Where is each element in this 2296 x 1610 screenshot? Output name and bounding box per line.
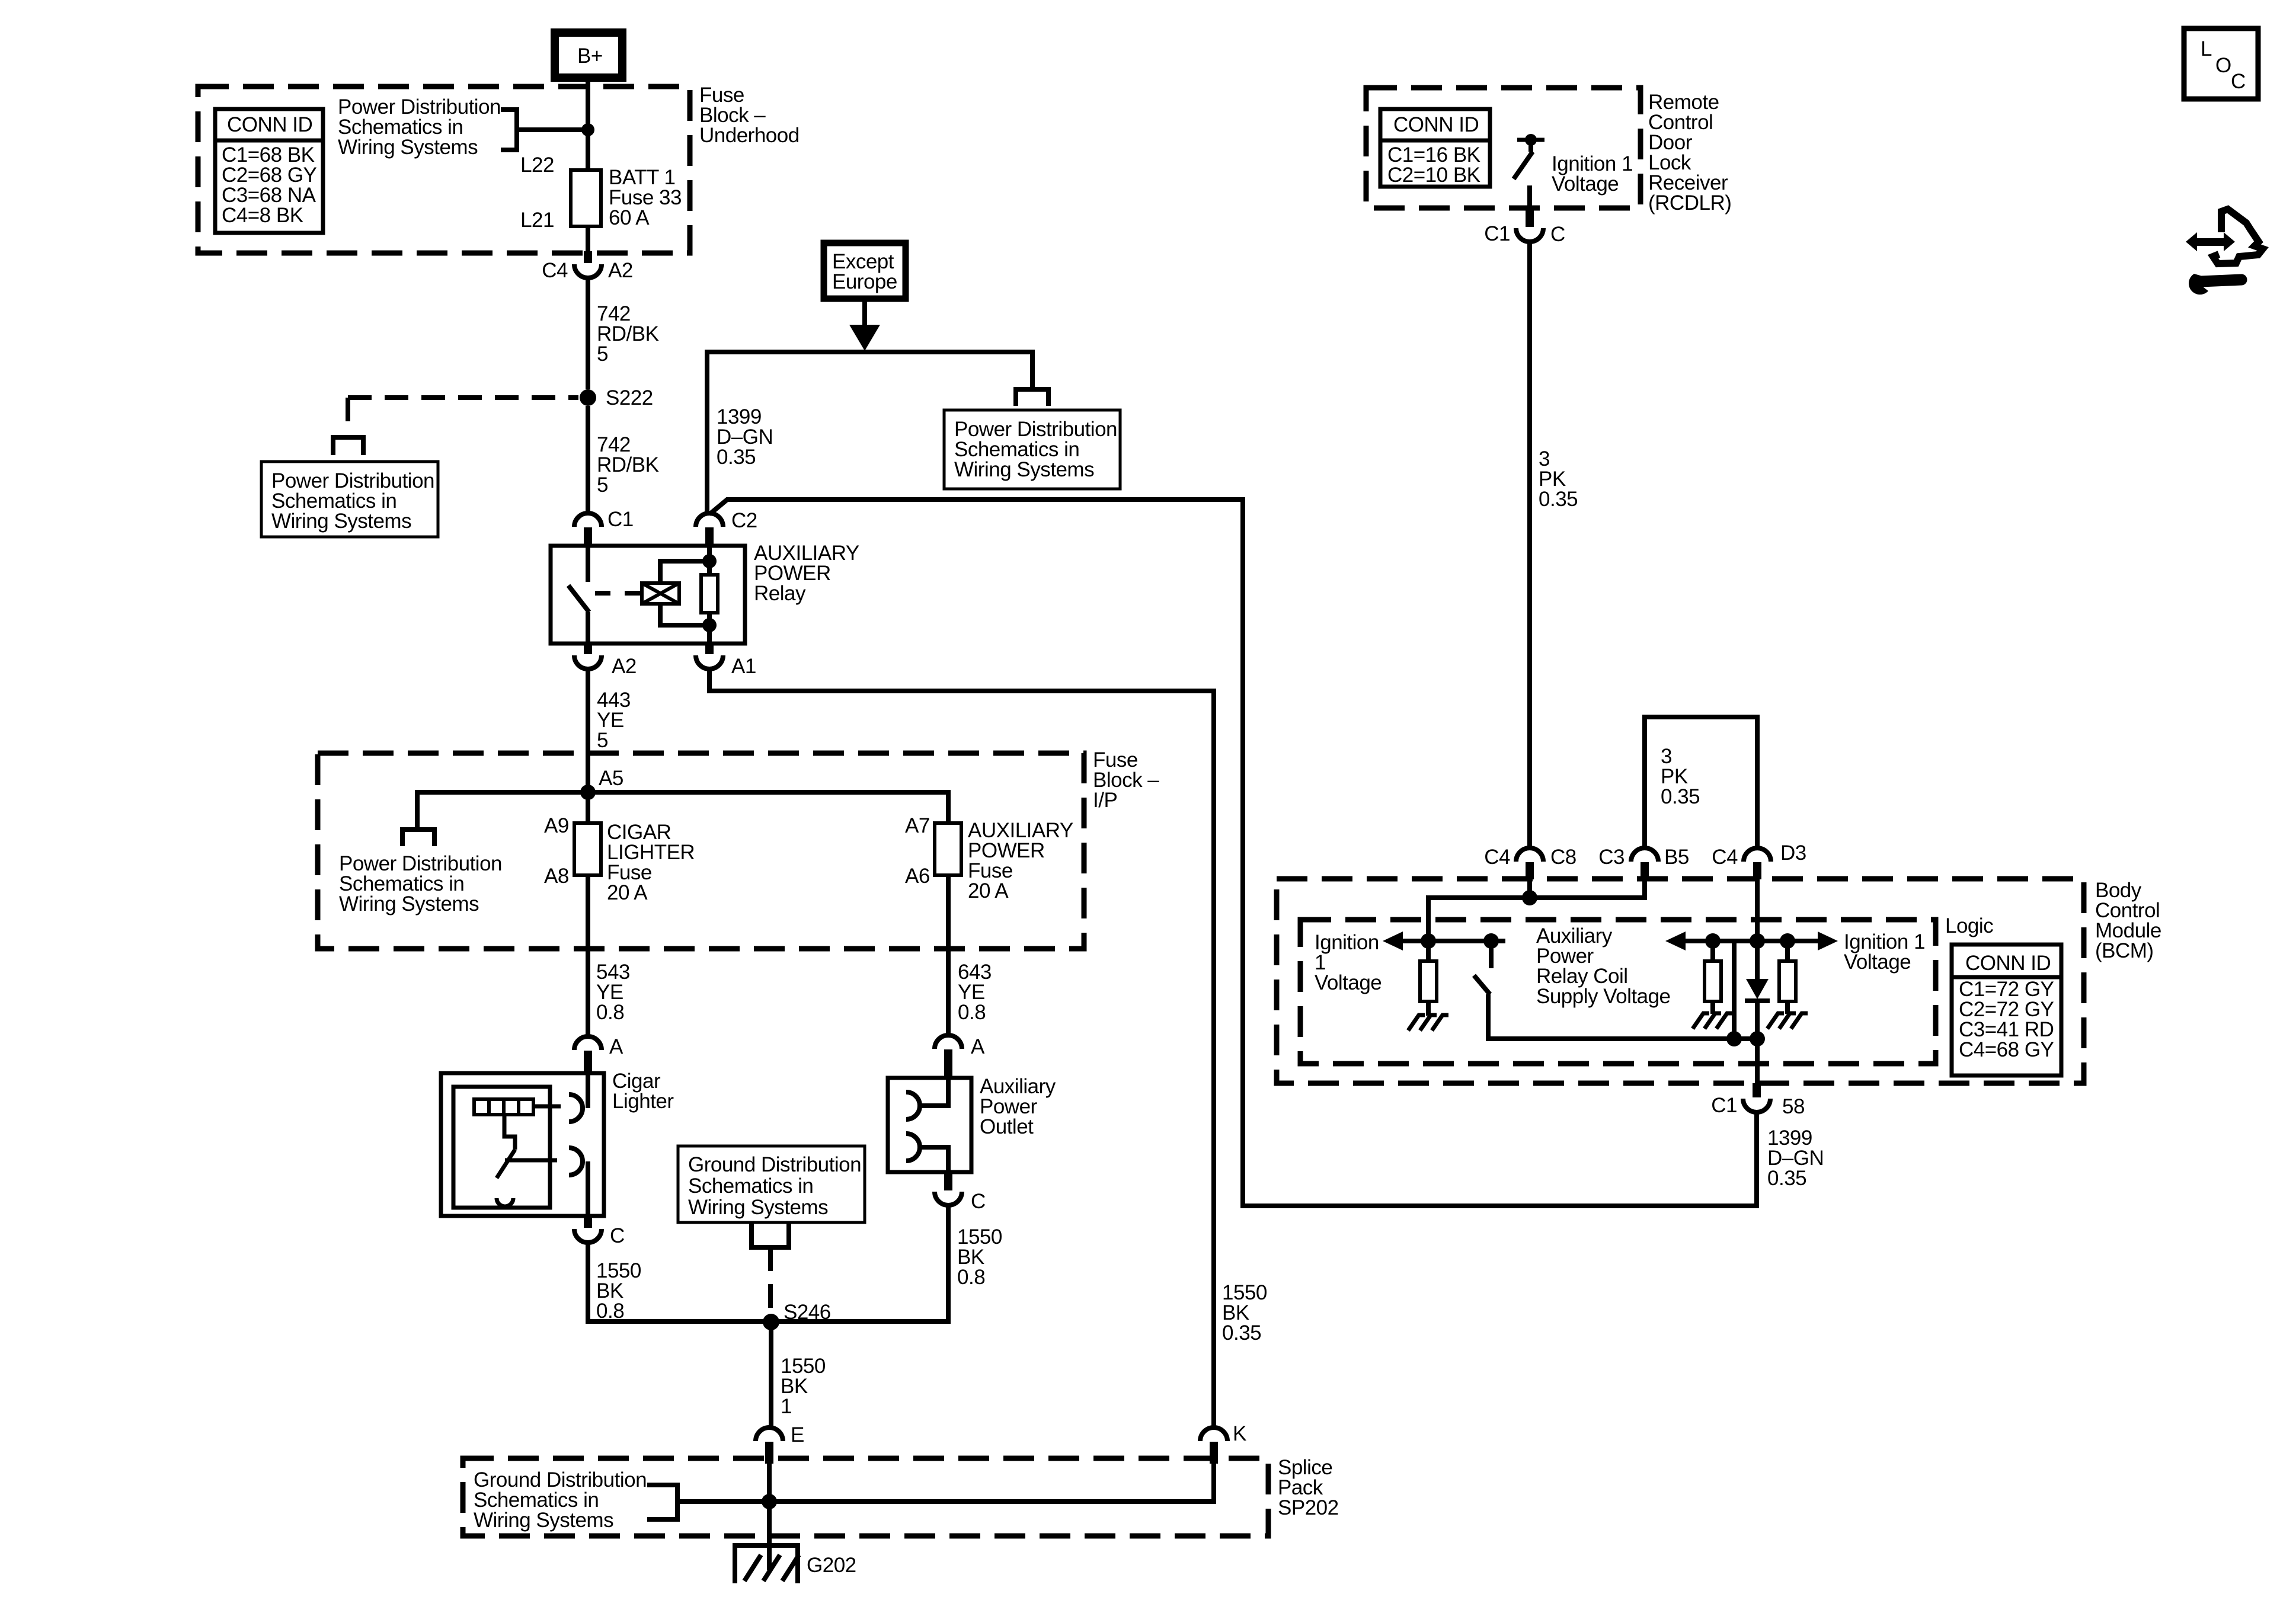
- BCM logic dashed box: [1300, 920, 1936, 1064]
- BCM dashed box: [1277, 879, 2084, 1083]
- label wire 742 RD/BK 5: [597, 302, 659, 366]
- resistor (right pull-down): [1767, 941, 1808, 1029]
- service info icon (animal head, arrow, wrench): [2213, 209, 2263, 264]
- bracket below Ground Distribution box: [752, 1224, 789, 1247]
- connector K (splice pack): [1200, 1422, 1246, 1464]
- wire B+ to fuse BATT1: [586, 78, 590, 172]
- wire loop B5 to D3: [1645, 717, 1757, 848]
- svg-text:Relay: Relay: [754, 582, 806, 605]
- label: Power Distribution Schematics in Wiring Systems (underhood): [338, 95, 501, 159]
- fuse block underhood dashed box: [198, 87, 690, 253]
- bracket above Power Distribution ref (I/P): [402, 830, 434, 846]
- connector C3 / B5 (BCM): [1598, 846, 1689, 879]
- svg-text:(RCDLR): (RCDLR): [1648, 191, 1731, 215]
- svg-text:5: 5: [597, 473, 608, 497]
- svg-text:Voltage: Voltage: [1315, 971, 1382, 994]
- dashed wire to S246: [768, 1247, 773, 1313]
- svg-text:58: 58: [1782, 1095, 1805, 1118]
- svg-text:C4: C4: [1484, 846, 1510, 869]
- B+ power symbol: [555, 33, 622, 78]
- ignition 1 voltage arrow (left): [1315, 931, 1505, 994]
- label 1550 BK 0.8 (right): [957, 1225, 1002, 1289]
- cigar lighter component: [441, 1070, 674, 1216]
- label 1399 D-GN 0.35 (coil feed): [717, 405, 773, 469]
- svg-text:1: 1: [781, 1395, 792, 1418]
- connector E (splice pack): [756, 1423, 804, 1464]
- svg-text:C1: C1: [1711, 1094, 1737, 1117]
- svg-text:Logic: Logic: [1945, 914, 1993, 937]
- svg-text:CONN ID: CONN ID: [1393, 113, 1479, 136]
- resistor (middle pull-down): [1693, 941, 1733, 1029]
- svg-text:S246: S246: [784, 1301, 831, 1324]
- label 1550 BK 1: [781, 1355, 826, 1418]
- ignition 1 voltage arrows (right): [1665, 930, 1925, 974]
- svg-text:0.35: 0.35: [1767, 1167, 1806, 1190]
- wire C2 coil to BCM 58: [709, 500, 1757, 1206]
- svg-text:A2: A2: [608, 259, 633, 282]
- fuse CIGAR LIGHTER Fuse 20 A: [544, 792, 695, 904]
- connector A (aux outlet): [935, 1035, 985, 1078]
- svg-text:Schematics in: Schematics in: [688, 1174, 813, 1198]
- svg-text:C4: C4: [1712, 846, 1738, 869]
- LOC reference box: [2184, 28, 2258, 99]
- CONN ID table (fuse block underhood): [215, 109, 323, 233]
- wire aux fuse down: [946, 875, 951, 1036]
- svg-text:A9: A9: [544, 814, 569, 837]
- arrow from Except Europe: [862, 299, 867, 326]
- svg-text:Ground Distribution: Ground Distribution: [688, 1153, 861, 1176]
- splice pack SP202 dashed box: [463, 1458, 1268, 1536]
- lower contact: [569, 1148, 583, 1175]
- svg-text:G202: G202: [807, 1554, 856, 1577]
- connector C1 (relay): [574, 508, 634, 546]
- wire A2 down to fuse block I/P: [586, 669, 590, 792]
- svg-text:0.35: 0.35: [717, 446, 756, 469]
- connector C (aux outlet): [935, 1172, 986, 1213]
- svg-text:5: 5: [597, 729, 608, 752]
- svg-text:C1: C1: [1484, 222, 1510, 245]
- svg-text:0.8: 0.8: [958, 1001, 986, 1024]
- wire RCDLR C to BCM C8: [1527, 242, 1532, 848]
- label: Auxiliary Power Relay Coil Supply Voltage: [1536, 924, 1671, 1008]
- relay coil supply vertical + resistor: [701, 546, 718, 644]
- label 543 YE 0.8: [596, 961, 630, 1024]
- upper contact: [569, 1094, 583, 1122]
- box: Power Distribution Schematics in Wiring Systems (center): [944, 410, 1120, 489]
- RCDLR dashed box: [1366, 88, 1641, 208]
- svg-text:Wiring Systems: Wiring Systems: [688, 1196, 828, 1219]
- wire to ground G202: [767, 1502, 772, 1570]
- relay switch: [568, 546, 589, 644]
- wire bracket to B+ feed: [517, 127, 588, 132]
- svg-text:0.35: 0.35: [1661, 785, 1700, 808]
- svg-text:SP202: SP202: [1278, 1496, 1339, 1519]
- svg-text:A6: A6: [905, 865, 930, 888]
- svg-text:Lighter: Lighter: [612, 1090, 674, 1113]
- bracket above Power Distribution box: [333, 437, 363, 455]
- svg-text:C: C: [971, 1190, 986, 1213]
- connector C4 / A2: [542, 251, 633, 282]
- svg-text:0.35: 0.35: [1539, 488, 1578, 511]
- svg-text:C4: C4: [542, 259, 568, 282]
- label 1550 BK 0.8 (left): [596, 1259, 641, 1323]
- svg-text:0.8: 0.8: [596, 1001, 624, 1024]
- heater element: [474, 1099, 533, 1115]
- connector C4 / D3 (BCM): [1712, 841, 1806, 879]
- connector C2 (relay coil): [696, 509, 757, 546]
- svg-text:E: E: [791, 1423, 804, 1446]
- svg-text:C1: C1: [607, 508, 634, 531]
- label: Remote Control Door Lock Receiver (RCDLR): [1648, 91, 1731, 215]
- wire into upper contact: [586, 1073, 590, 1108]
- connector C (cigar lighter): [574, 1216, 625, 1247]
- bracket to Ground Distribution label (splice pack): [647, 1485, 677, 1519]
- svg-text:A1: A1: [731, 655, 756, 678]
- connector C1 / 58 (BCM out): [1711, 1083, 1805, 1118]
- fuse block I/P dashed box: [318, 753, 1084, 949]
- svg-text:Wiring Systems: Wiring Systems: [338, 136, 478, 159]
- auxiliary power outlet component: [888, 1075, 1056, 1172]
- label wire 443 YE 5: [597, 689, 631, 752]
- splice pack internal bus: [767, 1464, 772, 1502]
- svg-text:A5: A5: [599, 767, 623, 790]
- svg-text:A: A: [971, 1035, 985, 1058]
- fuse AUXILIARY POWER Fuse 20 A: [905, 814, 1073, 902]
- dashed wire from S222 to Power Distribution reference: [348, 395, 578, 400]
- svg-text:Wiring Systems: Wiring Systems: [954, 458, 1094, 481]
- svg-text:20 A: 20 A: [607, 881, 648, 904]
- wire 742 RD/BK segment 1: [586, 278, 590, 389]
- label: Body Control Module (BCM): [2095, 879, 2161, 962]
- thermal cutout: [504, 1115, 515, 1150]
- svg-text:L: L: [2201, 37, 2212, 60]
- svg-text:I/P: I/P: [1093, 789, 1117, 812]
- label 1550 BK 0.35 (K feed): [1222, 1281, 1267, 1345]
- svg-text:S222: S222: [606, 386, 653, 409]
- label: Ground Distribution Schematics in Wiring Systems (splice pack): [474, 1468, 647, 1532]
- svg-text:Wiring Systems: Wiring Systems: [271, 510, 411, 533]
- svg-text:O: O: [2215, 54, 2231, 77]
- wire A5 bus: [417, 792, 948, 828]
- svg-text:60 A: 60 A: [609, 206, 650, 229]
- svg-text:Voltage: Voltage: [1844, 950, 1911, 974]
- svg-text:L22: L22: [520, 153, 554, 177]
- splice S246: [763, 1314, 779, 1330]
- svg-text:A7: A7: [905, 814, 930, 837]
- label wire 742 RD/BK 5 (second): [597, 433, 659, 497]
- AUXILIARY POWER Relay box: [551, 546, 745, 644]
- svg-text:A: A: [609, 1035, 623, 1058]
- fuse BATT 1 Fuse 33 60 A: [520, 153, 682, 232]
- diode on D3 line: [1745, 879, 1770, 1083]
- svg-text:C4=68 GY: C4=68 GY: [1959, 1038, 2054, 1061]
- connector C1 / C (RCDLR): [1484, 209, 1565, 246]
- svg-text:C3: C3: [1598, 846, 1625, 869]
- box: Power Distribution Schematics in Wiring Systems (left): [261, 462, 438, 537]
- box: Ground Distribution Schematics in Wiring Systems (center): [678, 1146, 865, 1222]
- svg-text:A2: A2: [612, 655, 637, 678]
- svg-text:B5: B5: [1664, 846, 1689, 869]
- wire cigar fuse down: [586, 875, 590, 1037]
- svg-text:20 A: 20 A: [968, 879, 1009, 902]
- wire cigar C to S246: [586, 1243, 590, 1324]
- label 3 PK 0.35: [1539, 447, 1578, 511]
- svg-text:D3: D3: [1780, 841, 1806, 865]
- svg-text:L21: L21: [520, 209, 554, 232]
- label: Power Distribution Schematics in Wiring Systems (I/P): [339, 852, 502, 916]
- svg-text:Supply Voltage: Supply Voltage: [1536, 985, 1671, 1008]
- svg-text:A8: A8: [544, 865, 569, 888]
- label 643 YE 0.8: [958, 961, 992, 1024]
- bracket to Power Distribution label (underhood): [501, 110, 517, 150]
- svg-text:C8: C8: [1550, 846, 1576, 869]
- svg-text:Wiring Systems: Wiring Systems: [339, 892, 479, 916]
- svg-text:0.8: 0.8: [957, 1266, 985, 1289]
- resistor (left pull-down): [1408, 941, 1448, 1030]
- wire to C: [586, 1161, 590, 1216]
- connector C4 / C8 (BCM): [1484, 846, 1576, 879]
- wire fuse to connector C4/A2: [586, 226, 590, 251]
- svg-text:Voltage: Voltage: [1552, 172, 1619, 196]
- BCM internal: C8 node bus: [1527, 879, 1532, 898]
- BCM switch: [1474, 933, 1765, 1046]
- svg-text:CONN ID: CONN ID: [1965, 952, 2051, 975]
- label: Fuse Block - Underhood: [699, 84, 800, 147]
- svg-text:Underhood: Underhood: [699, 124, 800, 147]
- svg-text:Outlet: Outlet: [980, 1115, 1034, 1138]
- connector A (cigar lighter): [574, 1035, 623, 1073]
- svg-text:K: K: [1233, 1422, 1246, 1445]
- splice S222: [580, 389, 596, 406]
- wire A1 to splice pack K: [709, 669, 1214, 1427]
- connector A1 (relay out): [696, 644, 756, 678]
- node: bracket tap on B+ feed: [581, 123, 594, 136]
- svg-text:(BCM): (BCM): [2095, 939, 2154, 962]
- relay coil: [642, 561, 709, 625]
- svg-text:C: C: [610, 1224, 625, 1247]
- svg-text:C2: C2: [731, 509, 757, 532]
- relay linkage (dashed): [595, 591, 610, 596]
- wire except-europe branch to C2: [707, 352, 1032, 513]
- CONN ID table (RCDLR): [1380, 109, 1490, 187]
- svg-text:Wiring Systems: Wiring Systems: [474, 1509, 613, 1532]
- ground G202: [735, 1545, 856, 1583]
- wire S246 down to E: [769, 1322, 773, 1427]
- svg-text:C: C: [1550, 223, 1565, 246]
- link from ign1 bus to switch output: [1732, 941, 1737, 1039]
- label 1399 D-GN 0.35 (bcm out): [1767, 1126, 1824, 1190]
- svg-text:B+: B+: [577, 44, 603, 68]
- svg-text:Europe: Europe: [832, 270, 897, 293]
- connector A2 (relay out): [574, 644, 637, 678]
- svg-text:CONN ID: CONN ID: [227, 113, 312, 136]
- wire 742 RD/BK segment 2: [586, 406, 590, 513]
- svg-text:C2=10 BK: C2=10 BK: [1387, 164, 1480, 187]
- CONN ID table (BCM): [1952, 945, 2061, 1076]
- wire outlet C to S246: [588, 1205, 948, 1321]
- RCDLR ignition switch: [1514, 134, 1544, 209]
- svg-text:C4=8 BK: C4=8 BK: [222, 204, 303, 227]
- Except Europe flag box: [824, 243, 906, 299]
- svg-text:C: C: [2231, 70, 2246, 93]
- bracket above Power Distribution box (except europe): [1016, 389, 1048, 406]
- svg-text:5: 5: [597, 343, 608, 366]
- svg-text:0.35: 0.35: [1222, 1321, 1261, 1345]
- label 3 PK 0.35 (loop): [1661, 745, 1700, 808]
